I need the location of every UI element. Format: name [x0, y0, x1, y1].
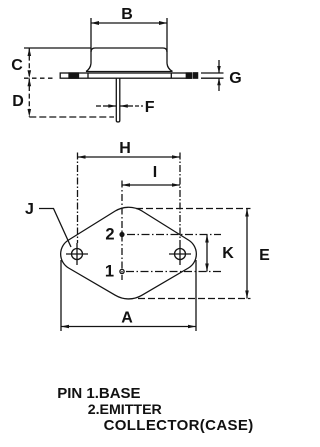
dimension G	[201, 60, 224, 91]
svg-text:D: D	[12, 93, 24, 110]
svg-text:C: C	[11, 57, 23, 74]
extension line E bottom	[138, 298, 251, 300]
svg-text:2: 2	[105, 225, 114, 243]
dimension K line	[205, 235, 209, 272]
extension line H left (to left hole)	[77, 153, 79, 244]
dimension H line	[78, 155, 181, 159]
svg-text:A: A	[121, 310, 133, 327]
extension line A right	[195, 260, 197, 331]
svg-text:F: F	[145, 99, 155, 116]
pin 2 leader right	[127, 234, 221, 236]
pin 2 (dot)	[119, 232, 124, 237]
dimension E line	[245, 209, 249, 299]
extension line D bottom	[29, 116, 114, 118]
lead (side view)	[116, 78, 120, 122]
mounting hole right	[169, 243, 191, 265]
extension line B left	[90, 18, 92, 52]
svg-text:2.EMITTER: 2.EMITTER	[88, 402, 162, 418]
extension line A left	[60, 260, 62, 331]
svg-text:E: E	[259, 247, 270, 264]
extension line E top	[136, 208, 251, 210]
flange (side view)	[60, 73, 197, 78]
svg-text:I: I	[153, 164, 157, 181]
svg-text:PIN 1.BASE: PIN 1.BASE	[57, 385, 140, 402]
transistor can (side view)	[86, 48, 173, 72]
flange outline (bottom view)	[61, 207, 197, 299]
extension line C/D middle	[24, 77, 55, 79]
dimension I line	[122, 183, 180, 187]
svg-text:1: 1	[105, 262, 114, 280]
extension line C top	[24, 47, 91, 49]
svg-text:J: J	[25, 201, 34, 218]
pin centerline	[121, 181, 123, 281]
pin 1 leader right	[126, 271, 221, 273]
pin 1 (small circle)	[120, 269, 124, 273]
dimension F	[96, 104, 143, 108]
dimension A line	[61, 325, 196, 329]
dimension C/D vertical line	[28, 48, 30, 117]
svg-text:G: G	[229, 70, 241, 87]
svg-text:K: K	[222, 245, 234, 262]
extension line B right	[166, 18, 168, 52]
svg-text:B: B	[121, 6, 133, 23]
extension line H/I right (to right hole)	[179, 153, 181, 244]
dimension B line	[91, 21, 167, 25]
svg-text:H: H	[119, 140, 131, 157]
mounting hole left	[66, 243, 88, 265]
svg-text:COLLECTOR(CASE): COLLECTOR(CASE)	[104, 417, 254, 434]
